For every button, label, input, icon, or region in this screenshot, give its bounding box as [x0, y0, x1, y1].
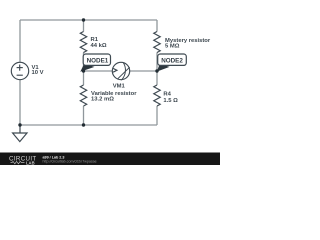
- wire R4 bottom to bottom net: [156, 106, 158, 125]
- voltage source V1: [11, 62, 28, 79]
- ground: [13, 133, 27, 142]
- junction ground: [18, 123, 21, 126]
- svg-text:44 kΩ: 44 kΩ: [91, 43, 107, 49]
- mystery resistor: [154, 32, 160, 53]
- variable resistor: [80, 85, 86, 106]
- node NODE2 flag: [157, 64, 170, 72]
- node NODE1 flag: [80, 64, 94, 72]
- svg-text:10 V: 10 V: [32, 70, 44, 76]
- svg-text:13.2 mΩ: 13.2 mΩ: [91, 97, 114, 103]
- footer CircuitLab logo: [9, 155, 37, 165]
- svg-text:LAB: LAB: [26, 160, 35, 165]
- resistor R1: [80, 32, 86, 53]
- wire bottom horizontal net: [20, 124, 157, 126]
- wire VM1 right to NODE2 junction: [130, 70, 157, 72]
- label mystery resistor value: [165, 38, 211, 50]
- svg-text:NODE2: NODE2: [161, 57, 183, 64]
- footer bar: [0, 153, 220, 166]
- wire NODE1 junction to VM1 left: [84, 70, 113, 72]
- voltmeter VM1: [112, 62, 129, 80]
- wire variable resistor top stub: [83, 71, 85, 85]
- wire V1 bottom to ground junction: [19, 80, 21, 125]
- wire mystery resistor bottom to NODE2 junction: [156, 53, 158, 72]
- label V1 value: [32, 65, 44, 76]
- resistor R4: [154, 85, 160, 106]
- svg-text:R4: R4: [163, 92, 171, 98]
- wire variable resistor bottom stub: [83, 106, 85, 125]
- wire NODE2 junction to R4: [156, 71, 158, 85]
- junction top R1: [82, 18, 85, 21]
- svg-text:NODE1: NODE1: [87, 57, 109, 64]
- svg-text:http://circuitlab.com/c02n7wpa: http://circuitlab.com/c02n7wpasae: [43, 160, 97, 164]
- label variable resistor value: [91, 91, 137, 103]
- svg-text:5 MΩ: 5 MΩ: [165, 44, 180, 50]
- junction bottom variable resistor: [82, 123, 85, 126]
- label R4 value: [163, 92, 178, 104]
- svg-text:VM1: VM1: [113, 83, 126, 89]
- wire left vertical from top to V1: [19, 20, 21, 62]
- wire mystery resistor top stub: [156, 20, 158, 32]
- svg-text:1.5 Ω: 1.5 Ω: [163, 98, 178, 104]
- junction NODE2: [155, 69, 158, 72]
- node NODE2 label box: [158, 54, 187, 65]
- wire ground stub: [19, 125, 21, 133]
- label R1 value: [91, 37, 107, 49]
- junction NODE1: [82, 69, 85, 72]
- wire R1 top stub: [83, 20, 85, 32]
- node NODE1 label box: [83, 54, 110, 65]
- wire top horizontal net: [20, 19, 157, 21]
- wire R1 bottom to NODE1 junction: [83, 53, 85, 72]
